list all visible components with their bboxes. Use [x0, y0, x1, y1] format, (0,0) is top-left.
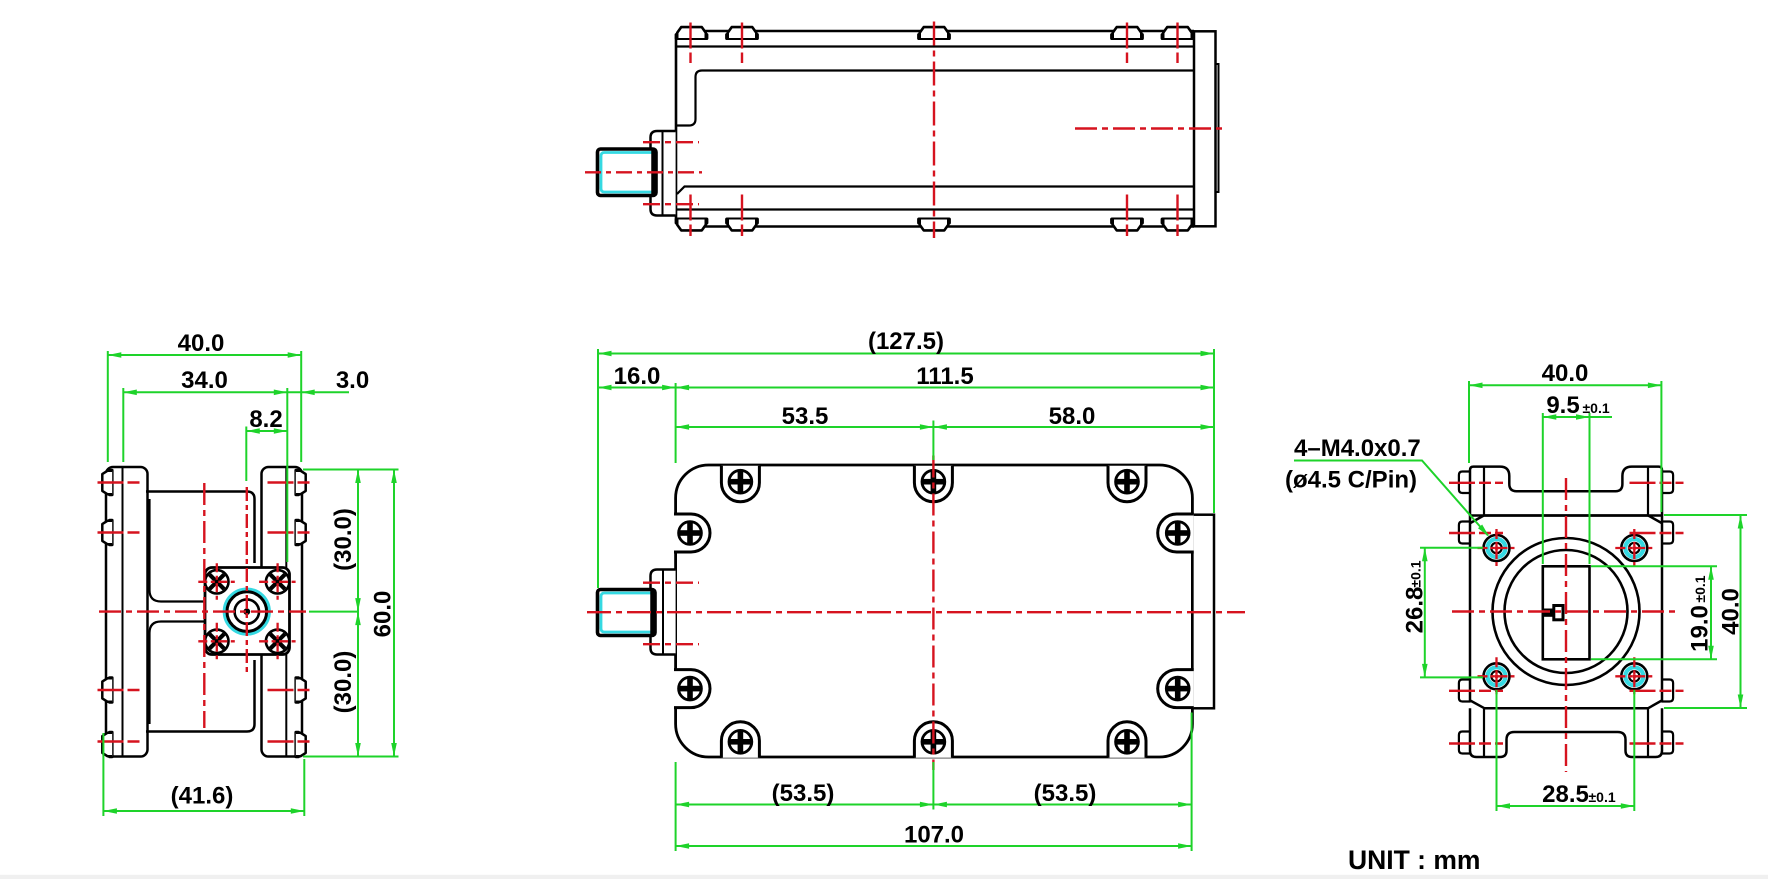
svg-text:8.2: 8.2 — [249, 406, 282, 433]
front view connector barrel end band — [650, 590, 655, 635]
red horizontal centerline front view — [587, 611, 1245, 613]
H view central connector inner circle — [235, 599, 259, 623]
svg-text:±0.1: ±0.1 — [1692, 575, 1708, 602]
red horizontal centerline right side — [1075, 127, 1222, 129]
top view body outline — [676, 31, 1194, 227]
dimension 40.0 right side right view — [1718, 515, 1745, 708]
svg-text:(127.5): (127.5) — [868, 328, 944, 355]
green dimension extensions right view — [1469, 381, 1747, 811]
svg-text:UNIT : mm: UNIT : mm — [1348, 845, 1481, 875]
svg-text:(53.5): (53.5) — [772, 780, 835, 807]
dimension 53.5 and 58.0 — [676, 403, 1214, 430]
right view ear tabs right — [1661, 472, 1673, 754]
top view connector barrel — [598, 149, 657, 196]
front view connector barrel — [598, 590, 656, 636]
svg-text:9.5: 9.5 — [1546, 392, 1579, 419]
dimension 28.5 right view — [1497, 781, 1635, 809]
right view center pin — [1554, 606, 1563, 620]
svg-text:±0.1: ±0.1 — [1589, 789, 1616, 805]
right view waveguide aperture rect — [1543, 566, 1590, 659]
dimension 40.0 H view — [108, 330, 301, 358]
svg-text:40.0: 40.0 — [1718, 588, 1745, 635]
top view inner line lower1 with chamfer — [677, 187, 1194, 195]
dimension 34.0 and 3.0 H view — [123, 367, 369, 395]
H view central connector outer circle — [227, 592, 267, 632]
H view central connector cyan ring — [225, 590, 269, 634]
top view inner line lower2 — [676, 208, 1194, 210]
H view block screws — [198, 563, 235, 600]
right view inner circle — [1505, 550, 1628, 673]
front view screws bottom row — [721, 722, 1146, 758]
dimension 107.0 — [676, 822, 1192, 849]
front view screws right column — [1158, 514, 1194, 708]
svg-text:26.8: 26.8 — [1402, 587, 1429, 634]
H view web left notch lower — [150, 622, 207, 725]
red bump ticks H view — [98, 483, 311, 742]
top view edge bumps bottom — [675, 218, 709, 231]
dimension 19.0 right view — [1687, 566, 1714, 659]
svg-text:111.5: 111.5 — [916, 363, 973, 390]
red horizontal centerline H view — [99, 610, 306, 612]
dimension 9.5 right view — [1543, 392, 1612, 420]
front view connector flange inner line — [662, 570, 664, 655]
top view inner line upper2 with step to left edge — [677, 71, 1194, 126]
dimension 8.2 H view — [246, 406, 287, 434]
H view right rail inner line — [285, 468, 287, 756]
red vertical centerline through top view center — [933, 22, 935, 239]
right view top section outline — [1470, 467, 1662, 516]
top view right end plate step — [1216, 64, 1219, 192]
dimension (41.6) H view — [103, 783, 304, 814]
top view connector flange — [651, 131, 676, 216]
green dimension extensions front view — [598, 349, 1214, 851]
svg-text:4–M4.0x0.7: 4–M4.0x0.7 — [1294, 435, 1421, 462]
dimension 40.0 top right view — [1469, 360, 1661, 388]
right view bottom section outline — [1470, 708, 1662, 757]
red vertical centerline right view — [1565, 478, 1567, 772]
right view outer circle — [1493, 538, 1640, 685]
right view cyan holes — [1478, 529, 1516, 567]
green dimension extensions H view — [103, 351, 398, 816]
svg-text:(30.0): (30.0) — [330, 508, 357, 571]
svg-text:(ø4.5 C/Pin): (ø4.5 C/Pin) — [1285, 467, 1417, 494]
svg-text:3.0: 3.0 — [336, 367, 369, 394]
H view right rail — [262, 467, 303, 757]
red vertical connector axis H view — [246, 487, 248, 672]
footer strip — [0, 875, 1768, 879]
top view edge bumps top — [675, 27, 709, 40]
right view ear tabs left — [1459, 472, 1471, 754]
front view right tab — [1192, 515, 1214, 709]
H view web top edge — [146, 492, 255, 564]
red centerline ticks top edge — [691, 23, 1178, 237]
svg-text:(41.6): (41.6) — [171, 783, 234, 810]
svg-text:±0.1: ±0.1 — [1583, 400, 1610, 416]
front view screws top row — [721, 466, 1146, 502]
red horizontal centerline right view — [1452, 610, 1679, 612]
top view connector barrel end band — [651, 150, 656, 196]
right view ear inner lines — [1484, 468, 1648, 757]
H view left rail inner line — [122, 468, 124, 756]
top view inner line upper1 — [676, 45, 1194, 47]
top view connector flange inner line — [662, 131, 664, 216]
right view main square — [1470, 516, 1662, 709]
svg-text:40.0: 40.0 — [178, 330, 225, 357]
H view left rail bumps — [102, 469, 113, 496]
dimension (30.0)(30.0) H view — [330, 470, 361, 757]
right view face top line with corner chamfers — [1470, 516, 1663, 524]
svg-text:60.0: 60.0 — [370, 591, 397, 638]
svg-text:53.5: 53.5 — [782, 403, 829, 430]
leader 4-M4.0x0.7 — [1285, 435, 1491, 538]
svg-text:(30.0): (30.0) — [330, 651, 357, 714]
svg-text:40.0: 40.0 — [1542, 360, 1589, 387]
front view connector barrel cyan highlight — [601, 593, 651, 632]
H view connector block — [205, 568, 290, 655]
svg-text:28.5: 28.5 — [1542, 781, 1589, 808]
front view connector flange — [651, 570, 676, 655]
red vertical centerline front view — [932, 456, 934, 771]
red connector axis centerline — [585, 171, 702, 173]
H view right rail bumps — [294, 469, 305, 496]
svg-text:(53.5): (53.5) — [1034, 780, 1097, 807]
svg-text:34.0: 34.0 — [181, 367, 228, 394]
right view center pin stub — [1543, 609, 1554, 617]
red connector flange ticks front view — [643, 582, 699, 584]
dimension 16.0 and 111.5 — [598, 363, 1214, 390]
top view right end plate — [1194, 31, 1216, 226]
front view body outline — [676, 465, 1193, 757]
svg-text:58.0: 58.0 — [1049, 403, 1096, 430]
red connector flange ticks — [643, 141, 699, 143]
H view web left notch upper — [150, 499, 207, 602]
H view central connector pin dot — [243, 608, 250, 615]
svg-text:19.0: 19.0 — [1687, 605, 1714, 652]
svg-text:±0.1: ±0.1 — [1408, 560, 1424, 587]
H view left rail — [106, 467, 148, 757]
H view web bottom edge — [146, 660, 255, 732]
dimension 26.8 right view — [1402, 548, 1484, 678]
top view connector barrel cyan highlight — [601, 153, 652, 193]
red ear ticks right view — [1449, 483, 1684, 744]
front view screws left column — [674, 514, 710, 708]
dimension (53.5)(53.5) bottom — [676, 780, 1192, 807]
dimension 60.0 H view — [370, 470, 397, 757]
svg-text:16.0: 16.0 — [614, 363, 661, 390]
dimension (127.5) — [598, 328, 1214, 356]
red vertical body axis H view — [203, 483, 205, 728]
svg-text:107.0: 107.0 — [904, 822, 964, 849]
